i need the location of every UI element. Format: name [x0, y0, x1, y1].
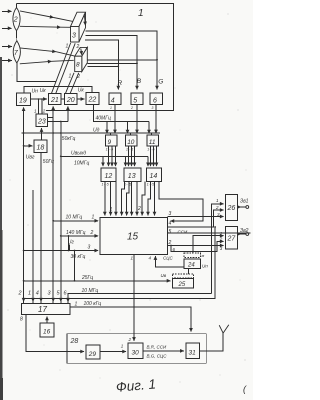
svg-text:23: 23 [37, 119, 46, 126]
svg-text:17: 17 [38, 305, 47, 314]
svg-text:15: 15 [127, 232, 139, 243]
svg-text:13: 13 [128, 173, 136, 180]
svg-text:2: 2 [128, 337, 132, 342]
svg-text:2: 2 [76, 74, 80, 80]
svg-text:140 МГц: 140 МГц [66, 230, 86, 236]
svg-text:Зв1: Зв1 [240, 199, 249, 205]
svg-text:25Гц: 25Гц [81, 275, 93, 281]
svg-text:Uвг: Uвг [26, 155, 35, 161]
svg-text:10: 10 [127, 139, 135, 146]
svg-text:6: 6 [153, 98, 157, 105]
svg-text:(: ( [243, 384, 247, 394]
svg-text:B: B [137, 78, 142, 85]
svg-text:12: 12 [105, 173, 113, 180]
svg-text:Uп: Uп [202, 264, 208, 269]
svg-text:8: 8 [76, 62, 80, 69]
svg-text:24: 24 [187, 262, 195, 268]
svg-text:В,G, СЦС: В,G, СЦС [147, 354, 168, 359]
svg-text:3: 3 [88, 245, 91, 251]
svg-text:1: 1 [28, 291, 31, 297]
svg-text:Uк: Uк [40, 88, 47, 94]
svg-text:5: 5 [57, 291, 61, 297]
svg-text:1: 1 [66, 44, 69, 50]
svg-text:40МГц: 40МГц [96, 116, 111, 122]
svg-text:1: 1 [121, 344, 124, 349]
svg-text:м: м [202, 253, 205, 258]
svg-text:18: 18 [37, 145, 45, 152]
svg-text:2: 2 [130, 106, 133, 110]
svg-text:4: 4 [149, 255, 152, 260]
svg-text:10 МГц: 10 МГц [82, 288, 99, 294]
svg-text:1⋯5: 1⋯5 [124, 183, 131, 187]
svg-text:25: 25 [178, 282, 186, 288]
svg-text:5: 5 [133, 98, 137, 105]
svg-text:2: 2 [168, 240, 172, 246]
svg-text:2: 2 [18, 291, 22, 297]
svg-text:6: 6 [64, 291, 68, 297]
svg-text:30 кГц: 30 кГц [71, 254, 86, 260]
svg-text:Зв2: Зв2 [240, 228, 249, 234]
svg-text:21: 21 [50, 97, 59, 104]
svg-text:10МГц: 10МГц [74, 161, 89, 167]
svg-text:19: 19 [19, 98, 27, 105]
svg-text:28: 28 [70, 338, 79, 345]
svg-text:1: 1 [110, 106, 112, 110]
svg-text:5: 5 [169, 229, 172, 235]
svg-text:50Гц: 50Гц [43, 159, 54, 165]
svg-text:11: 11 [149, 139, 156, 146]
svg-text:4: 4 [36, 291, 39, 297]
svg-text:6: 6 [173, 247, 176, 252]
svg-text:1⋯5: 1⋯5 [147, 183, 154, 187]
svg-text:4: 4 [169, 221, 172, 227]
svg-text:Uк: Uк [78, 87, 85, 93]
svg-text:2: 2 [90, 230, 94, 236]
svg-text:2: 2 [42, 109, 46, 114]
svg-text:2: 2 [13, 17, 18, 24]
svg-text:1: 1 [110, 207, 113, 213]
svg-text:8: 8 [20, 317, 23, 323]
svg-text:7: 7 [14, 50, 19, 57]
svg-text:30: 30 [132, 350, 140, 357]
svg-text:10 МГц: 10 МГц [66, 215, 83, 221]
svg-text:9: 9 [108, 139, 112, 146]
svg-text:1⋯5: 1⋯5 [126, 148, 133, 152]
svg-text:50кГц: 50кГц [62, 136, 76, 142]
svg-text:R: R [118, 80, 123, 87]
svg-text:3: 3 [220, 246, 223, 251]
svg-text:3: 3 [48, 291, 52, 297]
svg-text:Uвыхд: Uвыхд [71, 151, 86, 157]
svg-text:1⋯5: 1⋯5 [147, 148, 154, 152]
svg-text:1: 1 [34, 109, 37, 114]
svg-text:Uв: Uв [161, 273, 167, 278]
svg-text:3: 3 [72, 33, 76, 40]
svg-text:1: 1 [138, 8, 144, 19]
svg-text:2: 2 [76, 44, 80, 50]
svg-text:1⋯5: 1⋯5 [106, 148, 113, 152]
svg-text:3: 3 [152, 106, 154, 110]
svg-text:1: 1 [92, 215, 95, 221]
svg-text:1: 1 [75, 301, 78, 307]
svg-text:100 кГц: 100 кГц [84, 301, 102, 307]
svg-text:2: 2 [137, 206, 141, 212]
svg-text:Фиг. 1: Фиг. 1 [115, 376, 156, 394]
svg-text:1: 1 [216, 198, 219, 203]
svg-text:Uн: Uн [32, 88, 39, 94]
svg-text:2: 2 [215, 205, 219, 210]
svg-text:СЦС: СЦС [163, 256, 174, 261]
svg-text:29: 29 [88, 351, 97, 358]
svg-text:1⋯5: 1⋯5 [102, 183, 109, 187]
svg-text:22: 22 [88, 96, 97, 103]
svg-text:В,R, ССИ: В,R, ССИ [147, 345, 168, 350]
svg-text:16: 16 [43, 329, 51, 336]
svg-text:Uд: Uд [93, 127, 100, 133]
svg-text:4: 4 [111, 98, 115, 105]
svg-text:14: 14 [150, 173, 158, 180]
svg-text:1: 1 [131, 255, 134, 260]
svg-text:31: 31 [189, 350, 197, 357]
svg-text:1: 1 [69, 74, 72, 80]
svg-text:G: G [158, 79, 163, 86]
svg-text:26: 26 [227, 205, 236, 212]
svg-text:27: 27 [227, 236, 237, 243]
svg-text:ССИ: ССИ [178, 229, 188, 234]
svg-text:2: 2 [219, 237, 223, 242]
svg-text:20: 20 [66, 97, 75, 104]
svg-text:Uг: Uг [68, 239, 75, 245]
svg-text:3: 3 [169, 211, 172, 217]
